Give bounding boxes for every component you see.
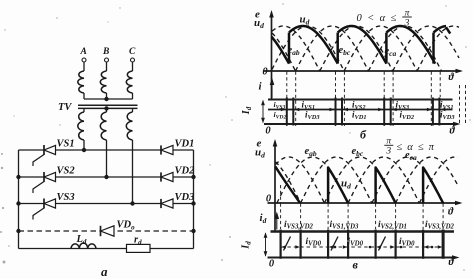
junction primary neutral (104, 97, 108, 101)
current axis i (diagram b) (259, 78, 275, 99)
node phase b on row 2 (104, 175, 108, 179)
svg-text:iVD0: iVD0 (399, 237, 415, 248)
label rd (134, 235, 142, 247)
freewheel diode VD0 (101, 226, 115, 236)
svg-text:ϑ: ϑ (449, 72, 455, 83)
svg-text:VD3: VD3 (175, 192, 195, 203)
svg-text:iVD2: iVD2 (400, 109, 415, 121)
label e (diagram v) (257, 138, 262, 150)
transformer TV primary winding phase C (126, 71, 132, 99)
svg-text:iVS1: iVS1 (302, 99, 316, 111)
svg-text:VD1: VD1 (175, 139, 195, 150)
label theta band (diagram v) (449, 257, 455, 268)
svg-text:а: а (101, 264, 108, 279)
wire bottom row (19, 248, 194, 250)
label 0 origin (diagram b) (262, 67, 268, 78)
commutation instant dashed verticals (diagram v) (281, 185, 444, 229)
diode VD3 (161, 199, 173, 208)
svg-text:eab: eab (288, 45, 300, 57)
wire phase b to VS2 row (106, 140, 108, 177)
transformer TV secondary winding phase c (126, 108, 132, 140)
node phase c on row 3 (130, 201, 134, 205)
svg-text:0 < α ≤: 0 < α ≤ (357, 13, 398, 24)
diagram b y-axis e,ud (269, 10, 274, 99)
svg-text:A: A (80, 47, 87, 57)
phase emf curves e_ab e_bc e_ca dashed (diagram b) (272, 26, 459, 71)
freewheel diode current labels i_VD0 (diagram v) (306, 237, 416, 248)
label ud curve (diagram v) (341, 178, 351, 191)
conduction cell boundaries (diagram v) (281, 230, 444, 259)
label 0 origin (diagram v) (266, 194, 272, 205)
diode conduction interval labels (diagram b) (274, 109, 456, 121)
label ud (diagram b) (254, 17, 264, 30)
junction left bus row 3 (16, 201, 20, 205)
label firing angle condition (diagram b) (357, 9, 412, 29)
svg-text:B: B (102, 47, 109, 57)
svg-text:Ld: Ld (76, 234, 87, 246)
label VS1 (57, 139, 75, 150)
junction right bus row 2 (191, 175, 195, 179)
wire row 2 (19, 176, 194, 178)
thyristor VS2 (33, 172, 56, 193)
freewheel wire dashed (19, 230, 194, 232)
svg-text:iVS3,VD2: iVS3,VD2 (425, 220, 454, 231)
svg-text:VS3: VS3 (57, 192, 75, 203)
svg-text:ebc: ebc (339, 45, 351, 57)
svg-text:0: 0 (266, 194, 272, 205)
Id level dimension arrow (diagram b) (241, 100, 265, 123)
svg-text:eab: eab (305, 146, 317, 158)
wire terminal A to primary winding (83, 62, 85, 71)
label e_bc (diagram v) (352, 146, 364, 158)
label VD3 (175, 192, 195, 203)
commutation instant dashed verticals (diagram b) (287, 72, 466, 127)
svg-text:0: 0 (265, 126, 271, 137)
svg-text:iVS3,VD2: iVS3,VD2 (284, 220, 313, 231)
diode VD1 (161, 145, 173, 154)
svg-text:3: 3 (385, 147, 391, 157)
svg-text:в: в (353, 258, 359, 272)
Id level dimension arrow (diagram v) (241, 232, 268, 256)
transformer TV secondary winding phase b (100, 108, 106, 140)
svg-text:iVS3: iVS3 (274, 100, 286, 110)
junction secondary neutral (104, 106, 108, 110)
junction right bus row 3 (191, 201, 195, 205)
transformer TV primary terminal B (102, 47, 109, 62)
leader marks in thyristor cells (diagram v) (284, 237, 386, 251)
label theta band (diagram b) (450, 126, 456, 137)
current band middle line (diagram b) (268, 109, 453, 111)
left cathode bus wire (18, 150, 20, 249)
svg-text:iVD1: iVD1 (352, 109, 367, 121)
diagram v y-axis e,ud (273, 139, 278, 232)
svg-text:id: id (260, 212, 267, 225)
diagram b x-axis (264, 69, 463, 74)
current band top line (diagram v) (271, 230, 455, 232)
transformer TV primary winding phase B (100, 71, 106, 99)
diagram v x-axis (268, 201, 463, 206)
label ud curve (diagram b) (300, 14, 310, 27)
svg-text:0: 0 (269, 259, 275, 270)
svg-text:ϑ: ϑ (450, 126, 456, 137)
svg-text:C: C (129, 47, 136, 57)
current axis id (diagram v) (260, 212, 280, 230)
current band axis line (diagram b) (264, 122, 461, 127)
svg-text:VDo: VDo (117, 220, 136, 232)
svg-text:TV: TV (58, 102, 72, 113)
thyristor VS3 (33, 199, 56, 220)
label VD1 (175, 139, 195, 150)
svg-text:iVS2,VD1: iVS2,VD1 (378, 220, 407, 231)
junction left bus row 2 (16, 175, 20, 179)
conduction pair labels (diagram v) (284, 220, 454, 231)
label TV (58, 102, 72, 113)
wire phase c to VS3 row (132, 140, 134, 204)
label Ld (76, 234, 87, 246)
wire terminal B to primary winding (106, 62, 108, 71)
svg-text:rd: rd (134, 235, 142, 247)
svg-text:iVD3: iVD3 (440, 109, 455, 121)
thyristor VS1 (33, 145, 56, 166)
svg-text:ud: ud (341, 178, 351, 191)
svg-text:VS1: VS1 (57, 139, 75, 150)
transformer TV primary winding phase A (78, 71, 84, 99)
label b (diagram b) (360, 128, 367, 142)
svg-text:ebc: ebc (352, 146, 364, 158)
wire row 3 (19, 203, 194, 205)
label 0 band (diagram b) (265, 126, 271, 137)
transformer TV secondary winding phase a (78, 108, 84, 140)
svg-text:б: б (360, 128, 367, 142)
svg-text:ϑ: ϑ (448, 207, 454, 218)
label a (schematic) (101, 264, 108, 279)
diode VD2 (161, 172, 173, 181)
label e_bc (diagram b) (339, 45, 351, 57)
node phase a on row 1 (82, 148, 86, 152)
transformer TV core (78, 105, 138, 108)
svg-text:0: 0 (262, 67, 268, 78)
junction right bus freewheel row (191, 229, 195, 233)
svg-text:≤ α ≤ π: ≤ α ≤ π (397, 142, 436, 153)
svg-text:Id: Id (241, 106, 253, 115)
smoothing inductor Ld (71, 243, 96, 248)
svg-text:iVD2: iVD2 (274, 110, 287, 120)
freewheel interval dashed middle line (diagram v) (281, 246, 441, 248)
svg-text:iVD0: iVD0 (306, 237, 322, 248)
label e_ab (diagram b) (288, 45, 300, 57)
conduction interval boundaries (diagram b) (281, 98, 446, 126)
svg-text:VD2: VD2 (175, 166, 196, 177)
wire terminal C to primary winding (132, 62, 134, 71)
primary star bus wire (84, 98, 133, 100)
svg-text:ϑ: ϑ (449, 257, 455, 268)
label VS2 (57, 166, 76, 177)
label v (diagram v) (353, 258, 359, 272)
svg-text:iVS3: iVS3 (396, 99, 410, 111)
label theta axis (diagram v) (448, 207, 454, 218)
transformer TV primary terminal A (80, 47, 87, 62)
svg-text:Id: Id (241, 241, 253, 250)
rectified voltage curve ud bold (diagram b) (272, 26, 451, 64)
label VS3 (57, 192, 75, 203)
phase emf curves e_ab e_bc e_ca dashed (diagram v) (276, 157, 459, 203)
svg-text:eca: eca (385, 46, 397, 58)
load resistor rd (127, 244, 151, 252)
junction left bus freewheel row (16, 229, 20, 233)
current band top line (diagram b) (268, 99, 453, 101)
svg-text:i: i (259, 81, 263, 93)
label e_ab (diagram v) (305, 146, 317, 158)
rectified voltage pulses ud bold (diagram v) (275, 167, 443, 204)
dimension dots and arrows on middle line (diagram v) (281, 245, 442, 248)
wire row 1 (19, 149, 194, 151)
label ud (diagram v) (255, 147, 265, 160)
label firing angle condition (diagram v) (384, 137, 435, 157)
label VD2 (175, 166, 196, 177)
svg-text:iVD0: iVD0 (348, 237, 364, 248)
label e (diagram b) (255, 9, 260, 21)
svg-text:iVD3: iVD3 (305, 109, 320, 121)
svg-text:ud: ud (254, 17, 264, 30)
svg-text:ud: ud (255, 147, 265, 160)
svg-text:3: 3 (404, 19, 410, 29)
label theta axis (diagram b) (449, 72, 455, 83)
svg-text:ud: ud (300, 14, 310, 27)
wire phase a to VS1 row (83, 140, 85, 150)
transformer TV primary terminal C (129, 47, 136, 62)
svg-text:iVS1,VD3: iVS1,VD3 (330, 220, 359, 231)
right anode bus wire (193, 150, 195, 249)
label 0 band (diagram v) (269, 259, 275, 270)
label VD0 (117, 220, 136, 232)
current band axis line (diagram v) (268, 255, 460, 260)
thyristor conduction interval labels (diagram b) (274, 99, 454, 111)
label e_ca (diagram v) (405, 150, 417, 162)
label e_ca (diagram b) (385, 46, 397, 58)
svg-text:VS2: VS2 (57, 166, 76, 177)
